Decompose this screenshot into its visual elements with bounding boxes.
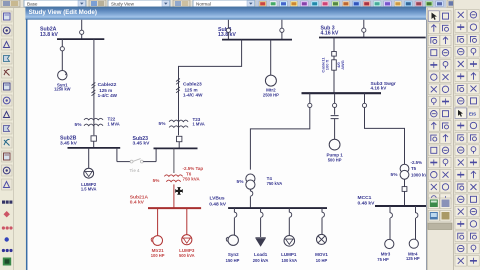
cable Cable11 (vertical element) [332, 60, 337, 70]
svg-text:Study View (Edit Mode): Study View (Edit Mode) [29, 9, 97, 16]
svg-text:1 MVA: 1 MVA [193, 121, 205, 126]
svg-text:MCC1: MCC1 [358, 195, 372, 201]
label bus Sub2A [40, 26, 58, 38]
wire+fuse: LVBus to MOV1 [321, 208, 323, 234]
label transformer T23 [159, 117, 205, 127]
svg-text:1-4/C 4W: 1-4/C 4W [98, 93, 118, 98]
wire: Swgr middle branch to Pump 1 [334, 93, 336, 115]
wire+fuse: LVBus to static load Load1 [260, 208, 262, 237]
load LUMP2 (lumped) [84, 168, 94, 178]
svg-text:1 MVA: 1 MVA [108, 121, 120, 126]
bus Sub2A 13.8 kV [57, 38, 104, 40]
wire: feed 2 into bus SubB [281, 20, 283, 40]
transformer T4 (two-circle) [246, 174, 255, 189]
transformer T22 [84, 118, 103, 125]
wire: feed 1 into bus SubB [227, 20, 229, 40]
wire: Swgr left branch down/left to transformer T4 [250, 93, 309, 169]
label motor Mtr3 [377, 251, 390, 262]
node: switch on SubB feed 1 [226, 28, 230, 32]
wire: tie riser to bus Sub23 [155, 148, 157, 162]
transformer T6 (faulted, red) [164, 175, 182, 182]
svg-text:750 kVA: 750 kVA [267, 181, 283, 186]
svg-text:MOV1: MOV1 [315, 252, 328, 257]
wire: Sub 3 to Sub3 Swgr through cable [333, 38, 335, 94]
label load Load1 [253, 252, 269, 263]
wire+fuse: LVBus to lumped load LUMP1 [288, 208, 290, 235]
breaker below T5 (open square) [404, 179, 406, 206]
svg-text:Tie 4: Tie 4 [130, 168, 140, 173]
svg-text:500 HP: 500 HP [328, 158, 342, 163]
wire: Swgr right branch down/right to transformer T5 [365, 93, 405, 164]
label load LUMP3 (red) [179, 248, 195, 258]
label bus Sub23 [133, 136, 151, 147]
wire: tie horizontal right segment [143, 161, 156, 163]
wire: Sub21A to lumped load LUMP3 (red) [186, 208, 188, 235]
wire+fuse: MCC1 to motor Mtr3 [389, 206, 391, 239]
svg-text:5%: 5% [391, 172, 399, 178]
wire: tie horizontal left segment [117, 161, 130, 163]
motor Pump 1 [329, 139, 340, 150]
svg-text:125 HP: 125 HP [406, 256, 420, 261]
svg-text:200 kVA: 200 kVA [253, 258, 269, 263]
label load MOV1 [315, 252, 328, 263]
bus SubB 13.8 kV [222, 39, 292, 41]
label bus SubB [218, 27, 236, 38]
svg-text:75 HP: 75 HP [377, 257, 389, 262]
svg-text:5%: 5% [75, 122, 83, 128]
svg-text:Syn2: Syn2 [228, 252, 239, 257]
label motor Mtr4 [406, 251, 420, 261]
svg-text:4.16 kV: 4.16 kV [371, 85, 388, 90]
label bus MCC1 [358, 195, 376, 207]
svg-text:5%: 5% [159, 121, 167, 127]
label bus Sub21A (red) [130, 194, 149, 205]
wire: utility feed into bus Sub 3 [363, 20, 365, 38]
node: switch on SubB feed 2 [280, 28, 284, 32]
label bus LVBus [209, 196, 227, 208]
node: breaker on Pump branch [333, 103, 337, 107]
svg-text:1250 kW: 1250 kW [54, 86, 71, 91]
svg-text:3.45 kV: 3.45 kV [60, 140, 78, 146]
wire: Sub2B to lumped load LUMP2 [88, 148, 90, 169]
svg-text:0.48 kV: 0.48 kV [358, 200, 376, 206]
wire: Sub23 down to faulted transformer T6 [173, 148, 175, 173]
svg-text:100 kVA: 100 kVA [281, 258, 297, 263]
svg-text:100 ft: 100 ft [325, 59, 330, 70]
label motor Mtr21 (red) [151, 248, 165, 258]
load Load1 (static, triangle) [255, 238, 265, 246]
label cable Cable22 [98, 82, 118, 98]
svg-text:EIS: EIS [469, 111, 476, 116]
svg-text:Sub21A: Sub21A [130, 194, 149, 200]
load MOV1 (circle with X) [317, 234, 327, 244]
wire+fuse: LVBus to motor Syn2 [233, 208, 235, 235]
svg-text:LUMP1: LUMP1 [281, 252, 297, 257]
svg-text:100 HP: 100 HP [151, 253, 165, 258]
svg-text:13.8 kV: 13.8 kV [218, 32, 236, 38]
label bus Sub 3 [321, 26, 339, 37]
node: breaker on Swgr left branch [308, 103, 312, 107]
cable Cable23 marks [176, 79, 180, 93]
bus Sub2B 3.45 kV [68, 147, 121, 149]
svg-text:Base: Base [27, 2, 38, 7]
wire+fuse: MCC1 to motor Mtr4 [415, 206, 417, 239]
motor Syn2 (with curl) [226, 235, 238, 245]
motor Mtr2 [265, 75, 276, 86]
motor Mtr4 [409, 239, 418, 248]
bus Sub3 Swgr 4.16 kV (main swgr) [302, 92, 382, 94]
svg-text:3.45 kV: 3.45 kV [133, 141, 151, 147]
label load LUMP2 [81, 182, 97, 192]
cable Cable22 marks [92, 83, 96, 96]
transformer T5 (two-circle) [400, 164, 409, 179]
switch: open tie switch (de-energized, dimmed) [130, 159, 143, 163]
wire: Sub21A to motor Mtr21 (red) [157, 208, 159, 236]
wire: SubB to motor Mtr2 [270, 40, 272, 75]
wire: Sub2A to generator Syn1 [61, 39, 63, 70]
bus MCC1 0.48 kV [375, 205, 427, 207]
node: switch on Syn1 branch [60, 47, 64, 51]
label motor Syn2 [226, 252, 240, 263]
label cable Cable11 (rotated) [321, 57, 345, 73]
fault marker (red X) at Sub21A [176, 188, 183, 195]
breaker CB below T22 (open square) [91, 136, 96, 141]
svg-text:125 m: 125 m [185, 87, 198, 92]
label bus Sub3 Swgr [371, 81, 396, 90]
wire: SubB jog to Cable23 column [179, 40, 242, 136]
label cable Cable23 [183, 82, 203, 98]
svg-text:10 HP: 10 HP [316, 258, 328, 263]
svg-text:5%: 5% [237, 179, 245, 185]
wire: Sub2A down through Cable22 and T22 to bus Sub2B [93, 39, 95, 135]
node: switch on Sub 3 outgoing [332, 52, 337, 57]
svg-text:0.48 kV: 0.48 kV [209, 202, 227, 208]
svg-text:Study View: Study View [111, 2, 135, 7]
fuse below T4 [249, 189, 251, 208]
svg-text:1.5 MVA: 1.5 MVA [81, 186, 97, 191]
svg-text:750 kVA: 750 kVA [183, 177, 201, 182]
svg-text:5%: 5% [153, 178, 161, 183]
transformer T23 [169, 120, 188, 127]
node: breaker on Swgr right branch [362, 103, 366, 107]
svg-text:125 m: 125 m [99, 88, 112, 93]
load LUMP1 (lumped) [284, 236, 295, 247]
bus Sub 3 4.16 kV [319, 37, 426, 39]
motor Mtr21 (red, with curl) [151, 236, 162, 246]
svg-text:Load1: Load1 [254, 252, 268, 257]
breaker CB below T23 (open square) [177, 136, 182, 141]
svg-text:T5: T5 [411, 166, 417, 171]
svg-text:AWG: AWG [340, 60, 345, 70]
svg-text:Mtr3: Mtr3 [381, 251, 391, 256]
capacitor on Pump branch [331, 116, 339, 119]
svg-text:-2.5%: -2.5% [411, 160, 423, 165]
load LUMP3 (red lumped) [182, 235, 192, 245]
svg-text:-2.5% Tap: -2.5% Tap [183, 166, 204, 171]
wire: T6 to bus Sub21A (red) [173, 184, 175, 208]
svg-text:4.16 kV: 4.16 kV [321, 31, 339, 37]
svg-text:13.8 kV: 13.8 kV [40, 32, 58, 38]
svg-text:500 kVA: 500 kVA [179, 253, 195, 258]
bus LVBus 0.48 kV [228, 207, 327, 209]
generator Syn1 [58, 71, 67, 80]
svg-text:0.4 kV: 0.4 kV [130, 200, 145, 206]
label transformer T22 [75, 117, 120, 128]
label generator Syn1 [54, 82, 71, 91]
label load LUMP1 [281, 252, 297, 263]
bus Sub23 3.45 kV [154, 147, 198, 149]
svg-text:150 HP: 150 HP [226, 258, 240, 263]
label motor Pump 1 [326, 153, 343, 163]
node: open switch on Sub2A feed [80, 30, 84, 34]
label transformer T4 [237, 176, 283, 186]
wire: utility feed into bus Sub2A [81, 20, 83, 39]
label bus Sub2B [60, 136, 78, 147]
svg-text:Normal: Normal [196, 2, 211, 7]
bus Sub21A 0.4 kV (faulted, red) [148, 207, 201, 209]
label motor Mtr2 [263, 88, 279, 98]
node: switch on Sub 3 feed [362, 28, 366, 32]
svg-text:LVBus: LVBus [210, 196, 225, 202]
svg-text:1-4/C 4W: 1-4/C 4W [183, 93, 203, 98]
label transformer T6 (red) [153, 166, 204, 183]
label transformer T5 [391, 160, 431, 178]
wire: tie riser from bus Sub2B [116, 148, 118, 162]
svg-text:2500 HP: 2500 HP [263, 93, 279, 98]
motor Mtr3 [385, 239, 394, 248]
